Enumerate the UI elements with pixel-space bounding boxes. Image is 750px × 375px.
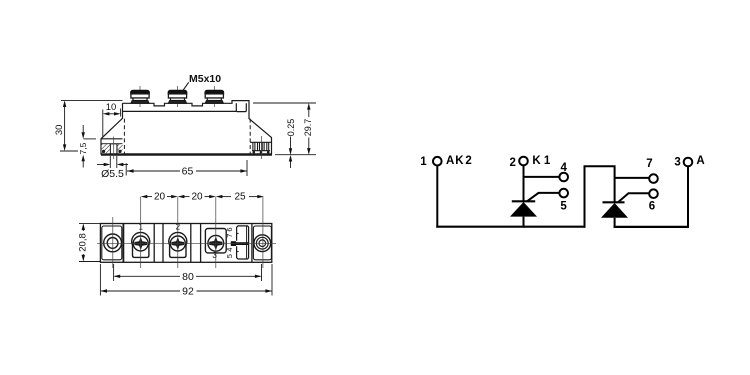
- svg-text:M5x10: M5x10: [189, 73, 221, 85]
- wire bus node AK2: [436, 226, 585, 228]
- dim 0.25: [290, 137, 292, 153]
- svg-text:29.7: 29.7: [303, 119, 313, 137]
- thyristor TH1 cathode bar: [512, 200, 535, 202]
- dims bottom view: 20 20 25: [79, 195, 272, 296]
- thyristor TH2 cathode bar: [603, 201, 625, 203]
- M5x10 label + leader: [181, 73, 221, 93]
- wire bus TH2 anode to terminal 3: [614, 226, 689, 228]
- 5 4 7 6 labels: [225, 227, 234, 258]
- svg-text:25: 25: [234, 192, 246, 203]
- center lines bottom view: [97, 197, 276, 268]
- svg-text:2: 2: [509, 157, 515, 169]
- svg-text:A: A: [696, 155, 704, 167]
- svg-text:7,5: 7,5: [78, 142, 88, 154]
- hidden line left: [123, 119, 125, 154]
- wire branch to pin 7: [615, 177, 650, 179]
- pin 5 circle: [559, 189, 568, 198]
- svg-text:20: 20: [191, 192, 203, 203]
- terminal 2: [519, 157, 528, 166]
- screws: [131, 86, 224, 107]
- dim texts side view: [54, 102, 313, 180]
- wire terminal2 to cathode: [523, 165, 525, 202]
- gate wire TH1 to pin 5: [527, 193, 559, 201]
- right ear plate: [253, 226, 271, 260]
- gate wire TH2 to pin 6: [618, 193, 649, 202]
- screw 1: [131, 86, 150, 107]
- dim 92: [99, 264, 101, 296]
- terminal 3: [684, 158, 693, 167]
- wire TH1 anode: [523, 217, 525, 228]
- dim 30: [61, 99, 123, 101]
- svg-text:80: 80: [182, 271, 194, 283]
- svg-text:20,8: 20,8: [78, 233, 89, 252]
- dim 29.7: [253, 102, 316, 104]
- dim 20.8: [79, 222, 100, 224]
- pin 7 circle: [649, 174, 658, 183]
- svg-text:92: 92: [182, 286, 194, 298]
- dim o5.5: [109, 156, 111, 168]
- wire bridge TH2 cathode to bus: [585, 166, 615, 227]
- dim 65: [125, 163, 127, 176]
- svg-text:0.25: 0.25: [286, 119, 296, 137]
- module body outline (side view): [123, 101, 272, 155]
- thyristor TH1 triangle: [510, 202, 537, 217]
- screw 3: [205, 86, 224, 107]
- svg-text:7: 7: [646, 158, 652, 170]
- right foot (threaded hole): [250, 136, 272, 159]
- dim 7,5: [82, 125, 84, 136]
- svg-text:10: 10: [106, 102, 117, 113]
- svg-text:1: 1: [138, 222, 143, 231]
- svg-text:1: 1: [420, 156, 427, 168]
- left foot: [101, 137, 123, 160]
- svg-text:65: 65: [182, 166, 194, 178]
- dividers: [122, 224, 124, 263]
- svg-text:5: 5: [560, 201, 567, 213]
- pin 6 circle: [649, 189, 658, 198]
- svg-text:3: 3: [674, 157, 680, 169]
- svg-text:30: 30: [54, 125, 65, 136]
- lid seam line: [123, 110, 237, 112]
- dim 10: [102, 110, 104, 138]
- svg-text:6: 6: [225, 227, 234, 231]
- svg-text:2: 2: [176, 222, 181, 231]
- svg-text:4: 4: [560, 162, 567, 174]
- gate connector block in bottom view: [231, 226, 249, 259]
- wire branch to pin 4: [524, 176, 560, 178]
- wire terminal1 down: [436, 166, 438, 228]
- svg-text:AK2: AK2: [446, 155, 472, 167]
- dim 80: [113, 264, 115, 281]
- wire TH2 anode: [614, 218, 616, 228]
- wire terminal3 down: [687, 166, 689, 228]
- screw 2: [168, 86, 187, 107]
- hidden line right: [249, 119, 251, 154]
- svg-text:20: 20: [154, 192, 166, 203]
- svg-text:K 1: K 1: [532, 155, 551, 167]
- terminal 1 circle: [433, 157, 442, 166]
- svg-text:6: 6: [649, 200, 655, 212]
- circuit labels: [420, 155, 704, 212]
- thyristor TH2 triangle: [601, 203, 628, 218]
- module baseplate bottom: [101, 153, 272, 155]
- top-right pocket: [236, 103, 246, 111]
- svg-text:7: 7: [225, 234, 234, 238]
- svg-text:4: 4: [225, 248, 234, 252]
- pin 4 circle: [559, 173, 568, 182]
- left ear plate: [102, 226, 122, 260]
- svg-text:5: 5: [225, 254, 234, 258]
- svg-text:3: 3: [212, 251, 217, 260]
- svg-text:Ø5.5: Ø5.5: [101, 168, 124, 180]
- terminals in bottom view: [132, 232, 150, 257]
